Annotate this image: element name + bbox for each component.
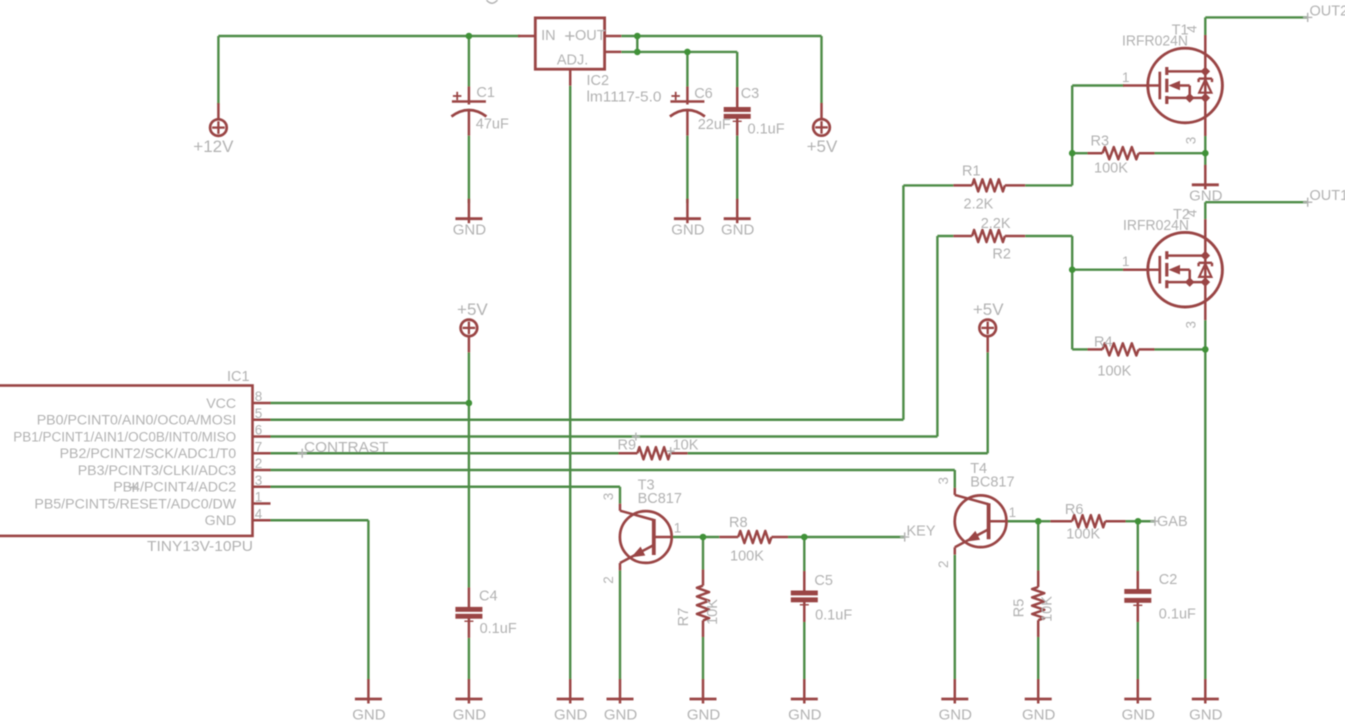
svg-text:R9: R9 [618,437,637,453]
net label GAB [1150,514,1187,530]
transistor T2 IRFR024N [1122,207,1222,328]
wire C1 top [468,36,470,87]
wire R9 to +5V corner [688,452,988,454]
junction T1 source / R3 / GND [1202,150,1209,157]
svg-text:0.1uF: 0.1uF [748,122,785,138]
svg-text:GND: GND [1022,707,1056,724]
svg-text:R4: R4 [1094,335,1113,351]
origin cross R9 [632,433,675,456]
capacitor C2 0.1uF [1124,571,1196,623]
svg-text:100K: 100K [1094,161,1128,177]
junction T2 source / R4 [1202,346,1209,353]
wire IC1 pin4 GND row [270,519,368,521]
wire T4 emitter down to GND [954,555,956,680]
svg-text:GND: GND [721,222,755,239]
ground GND bottom (C4) [453,679,487,724]
power symbol +5V (mid) [457,300,488,353]
svg-text:GND: GND [939,707,973,724]
svg-text:10K: 10K [673,437,699,453]
svg-text:GND: GND [352,707,386,724]
resistor R5 10K [1012,571,1056,638]
wire R6 left [1038,520,1050,522]
svg-text:R5: R5 [1012,599,1028,618]
IC1 ATtiny13 box [0,369,253,555]
svg-text:OUT: OUT [575,28,606,44]
svg-text:IRFR024N: IRFR024N [1123,218,1189,234]
svg-text:1: 1 [1122,254,1130,269]
svg-text:PB3/PCINT3/CLKI/ADC3: PB3/PCINT3/CLKI/ADC3 [78,463,237,479]
svg-text:PB2/PCINT2/SCK/ADC1/T0: PB2/PCINT2/SCK/ADC1/T0 [60,446,237,462]
svg-text:IC2: IC2 [587,73,610,89]
junction OUT rail lower [634,49,641,56]
wire R5 bottom to GND [1037,637,1039,680]
wire T1 gate row [1072,84,1124,86]
wire +5V mid below symbol [468,353,470,404]
svg-text:R2: R2 [992,246,1011,262]
transistor T1 IRFR024N [1122,23,1222,145]
svg-text:100K: 100K [1097,364,1131,380]
capacitor C1 47uF [451,85,509,136]
svg-text:PB5/PCINT5/RESET/ADC0/DW: PB5/PCINT5/RESET/ADC0/DW [34,496,236,512]
IC1 pins and pin numbers [13,389,270,529]
junction +12V rail / C1 [466,33,473,40]
resistor R9 10K [618,437,699,459]
ground GND bottom (IC1) [352,679,386,724]
wire C5 bottom to GND [803,622,805,680]
svg-text:C4: C4 [479,589,498,605]
svg-text:8: 8 [255,389,263,404]
transistor T3 BC817 [601,478,682,584]
junction T3 base / R7 / R8 [700,534,707,541]
resistor R3 100K [1088,134,1155,177]
svg-text:R3: R3 [1091,134,1110,150]
wire R1 left vertical [902,185,904,419]
svg-text:VCC: VCC [206,396,236,412]
svg-text:3: 3 [936,477,951,485]
wire T2 source down to node [1204,320,1206,349]
svg-text:2.2K: 2.2K [981,216,1011,232]
junction C6 tap [684,49,691,56]
svg-text:GND: GND [554,707,588,724]
junction T4 base / R5 / R6 [1035,518,1042,525]
power symbol +12V [193,103,234,156]
svg-text:GND: GND [453,222,487,239]
svg-text:C2: C2 [1159,572,1178,588]
wire IC1 pin3 row [270,486,620,488]
wire R2 left vertical [936,236,938,437]
wire C3 corner down [736,52,738,87]
resistor R2 2.2K [953,216,1025,262]
svg-text:4: 4 [1185,209,1200,217]
wire OUT junction vertical [636,36,638,52]
svg-text:GND: GND [205,513,237,529]
svg-text:C6: C6 [694,86,713,102]
ground GND bottom (T2 source) [1189,679,1223,724]
wire T2 gate row [1072,269,1124,271]
ground GND bottom (R7) [687,679,721,724]
svg-text:KEY: KEY [907,524,936,540]
wire R3 left stub [1072,152,1087,154]
svg-text:+12V: +12V [193,137,234,156]
svg-text:R6: R6 [1065,502,1084,518]
wire OUT2 stub [1205,16,1307,18]
wire T2 drain up [1204,202,1206,219]
power symbol +5V (right) [973,300,1004,353]
svg-text:1: 1 [674,521,682,536]
svg-text:PB0/PCINT0/AIN0/OC0A/MOSI: PB0/PCINT0/AIN0/OC0A/MOSI [37,413,236,429]
wire IC1 pin7 row (CONTRAST) [270,452,619,454]
wire R4 right stub [1155,348,1206,350]
ground GND bottom (C5) [788,679,822,724]
voltage regulator IC2 lm1117-5.0 [518,18,662,106]
wire IC1 pin6 row [270,435,937,437]
wire T2 source to bottom GND [1204,349,1206,679]
junction R3 / gate column [1069,150,1076,157]
wire +12V rail to IC2 IN [218,35,520,37]
ground GND bottom (T3 emitter) [604,679,638,724]
svg-text:C1: C1 [476,85,495,101]
svg-text:2.2K: 2.2K [964,197,994,213]
ground GND (C3) [721,199,755,239]
wire OUT1 stub [1205,201,1307,203]
wire R6 right [1126,520,1139,522]
wire C1 bottom to GND [468,136,470,203]
svg-text:3: 3 [255,473,263,488]
resistor R4 100K [1088,335,1155,380]
wire R7 bottom to GND [702,637,704,680]
wire R4 left stub [1072,348,1087,350]
ground GND bottom (ADJ) [554,679,588,724]
ground GND (between T1 and T2) [1189,165,1223,205]
svg-text:IN: IN [541,28,556,44]
wire GAB stub [1138,520,1155,522]
wire C4 bottom to GND [468,638,470,680]
svg-text:GND: GND [671,222,705,239]
wire R3 right stub [1155,152,1206,154]
wire T3 base to node [672,536,704,538]
wire mid GND stub [1204,153,1206,168]
svg-text:CONTRAST: CONTRAST [304,440,389,456]
svg-text:+5V: +5V [457,300,488,319]
wire +12V vertical [217,36,219,104]
svg-text:10K: 10K [705,599,721,625]
junction R8 / C5 / KEY [801,534,808,541]
svg-text:PB4/PCINT4/ADC2: PB4/PCINT4/ADC2 [113,480,236,496]
junction OUT rail upper [634,33,641,40]
capacitor C4 0.1uF [455,588,516,638]
svg-text:3: 3 [1184,137,1199,145]
wire R8 left [703,536,719,538]
svg-text:+5V: +5V [973,300,1004,319]
svg-text:22uF: 22uF [698,117,731,133]
svg-text:1: 1 [1009,505,1017,520]
wire R1 right to gate column [1025,184,1072,186]
ground GND bottom (T4 emitter) [939,679,973,724]
wire IC1 GND drop [367,520,369,679]
wire T4 collector drop [954,470,956,488]
wire T2 gate column vertical [1071,236,1073,349]
svg-text:R7: R7 [676,608,692,627]
svg-text:BC817: BC817 [970,474,1014,490]
wire IC1 pin8 VCC to +5V [270,402,469,404]
svg-text:GND: GND [1122,707,1156,724]
svg-text:IRFR024N: IRFR024N [1122,34,1188,50]
wire +5V mid down to C4 [468,403,470,588]
svg-text:OUT2: OUT2 [1310,3,1345,19]
svg-text:10K: 10K [1040,596,1056,622]
svg-text:0.1uF: 0.1uF [480,621,517,637]
resistor R8 100K [719,515,788,565]
wire C2 bottom to GND [1137,622,1139,680]
wire R8 right [788,536,804,538]
resistor R7 10K [676,570,721,638]
wire R2 left lead [937,235,953,237]
capacitor C5 0.1uF [791,571,853,624]
svg-text:GND: GND [604,707,638,724]
svg-text:PB1/PCINT1/AIN1/OC0B/INT0/MISO: PB1/PCINT1/AIN1/OC0B/INT0/MISO [13,429,236,445]
svg-text:GND: GND [687,707,721,724]
wire T1 source down to node [1204,136,1206,153]
svg-text:GND: GND [788,707,822,724]
wire R2 right to gate column [1025,235,1072,237]
svg-text:R8: R8 [729,515,748,531]
svg-text:3: 3 [1184,321,1199,329]
wire C3 bottom to GND [736,136,738,203]
wire +5V top vertical [820,36,822,103]
svg-text:7: 7 [255,439,263,454]
svg-text:C5: C5 [814,573,833,589]
wire IC2 ADJ down to GND [569,86,571,680]
capacitor C3 0.1uF [724,86,785,138]
svg-text:ADJ.: ADJ. [557,53,588,69]
svg-text:0.1uF: 0.1uF [815,608,852,624]
wire C5 top [803,537,805,571]
ground GND bottom (C2) [1122,679,1156,724]
wire C6 bottom to GND [686,136,688,203]
svg-text:R1: R1 [962,164,981,180]
svg-text:5: 5 [255,406,263,421]
wire R1 left lead [903,184,953,186]
svg-text:lm1117-5.0: lm1117-5.0 [587,90,662,106]
junction R6 / C2 / GAB [1135,518,1142,525]
svg-text:+5V: +5V [807,137,838,156]
svg-text:47uF: 47uF [476,117,509,133]
svg-text:OUT1: OUT1 [1310,188,1345,204]
wire R7 top [702,537,704,570]
svg-text:100K: 100K [1066,527,1100,543]
decorative clipped glyph top [487,0,498,3]
wire IC2 OUT2 to C3 [621,51,737,53]
wire IC2 OUT to +5V corner [621,35,821,37]
svg-text:4: 4 [255,506,263,521]
capacitor C6 22uF [670,86,731,136]
svg-text:6: 6 [255,423,263,438]
svg-text:C3: C3 [741,86,760,102]
svg-text:GND: GND [1189,187,1223,204]
wire C6 top [686,52,688,87]
svg-text:2: 2 [936,560,951,568]
svg-text:100K: 100K [730,549,764,565]
svg-text:1: 1 [255,490,263,505]
net label OUT1 [1303,188,1345,207]
wire T3 emitter down to GND [619,570,621,679]
ground GND (C6) [671,199,705,239]
resistor R6 100K [1050,502,1125,543]
svg-text:0.1uF: 0.1uF [1159,607,1196,623]
svg-text:2: 2 [601,576,616,584]
resistor R1 2.2K [953,164,1025,213]
net label KEY [900,524,936,542]
svg-text:3: 3 [601,493,616,501]
svg-text:GND: GND [453,707,487,724]
net label OUT2 [1303,3,1345,22]
svg-text:IC1: IC1 [227,369,250,385]
ground GND bottom (R5) [1022,679,1056,724]
svg-text:BC817: BC817 [638,491,682,507]
power symbol +5V (regulator output) [807,103,838,156]
transistor T4 BC817 [936,461,1016,568]
wire T1 drain up [1204,17,1206,35]
net label CONTRAST [298,440,389,458]
svg-text:GAB: GAB [1157,514,1188,530]
svg-text:1: 1 [1122,70,1130,85]
ground GND (C1) [453,199,487,239]
wire +5V right vertical [987,353,989,454]
wire T3 collector drop [619,487,621,504]
wire IC1 pin2 row [270,469,955,471]
svg-text:GND: GND [1189,707,1223,724]
junction T2 gate [1069,266,1076,273]
svg-text:4: 4 [1185,25,1200,33]
wire IC1 pin5 row [270,419,903,421]
junction VCC / +5V [466,400,473,407]
svg-text:TINY13V-10PU: TINY13V-10PU [147,538,253,555]
wire KEY stub [804,536,904,538]
wire T4 base to node [1006,520,1038,522]
wire C2 top [1137,521,1139,571]
svg-text:2: 2 [255,456,263,471]
wire R5 top [1037,521,1039,570]
wire T1 gate column vertical [1071,86,1073,186]
